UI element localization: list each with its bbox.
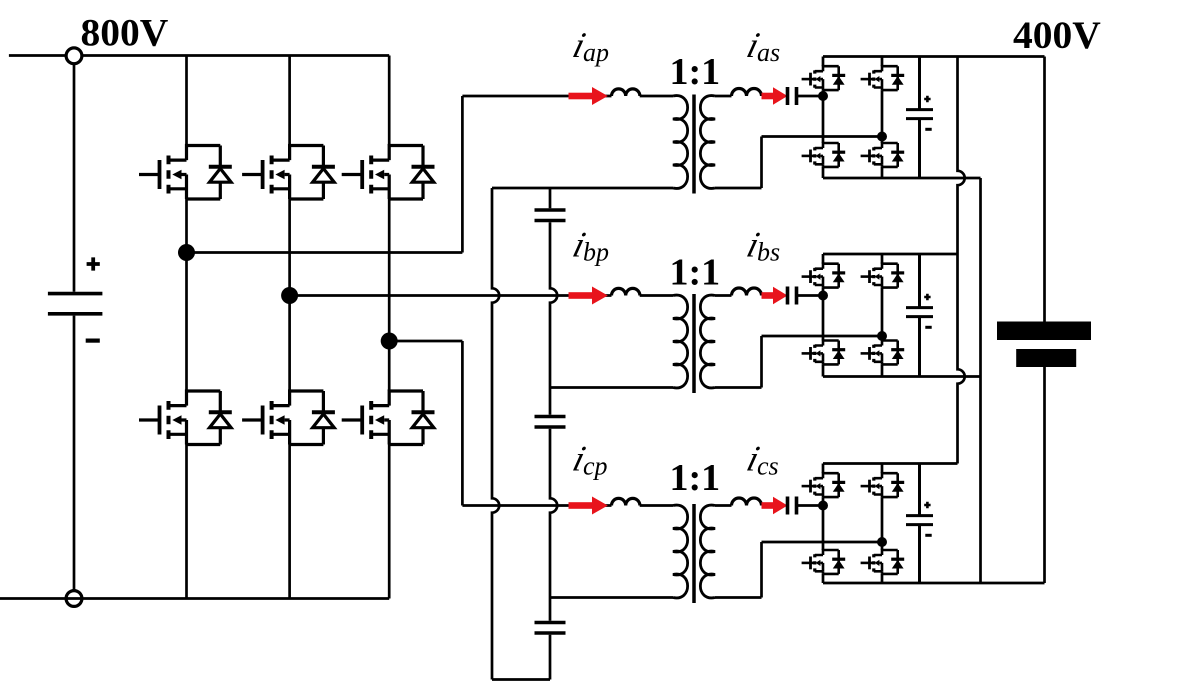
transistor Q2 xyxy=(242,146,335,200)
wire cap to module b xyxy=(797,294,824,297)
capacitor Cob output xyxy=(906,254,933,377)
wire chain bottom xyxy=(492,678,550,681)
wire module A leg2 xyxy=(881,57,884,179)
inductor Las xyxy=(732,89,762,97)
wire leg3 source lower xyxy=(388,445,391,599)
transistor S4c xyxy=(861,550,905,574)
capacitor C3 blocking xyxy=(535,623,566,634)
svg-text:cs: cs xyxy=(757,452,779,481)
wire cap to module c xyxy=(797,504,824,507)
current arrow i_ap xyxy=(569,87,608,105)
transistor Q5 xyxy=(242,391,335,445)
wire phase a top xyxy=(462,95,611,98)
transistor Q3 xyxy=(342,146,435,200)
svg-text:as: as xyxy=(757,38,780,67)
inductor Lcs xyxy=(732,498,762,506)
transistor S4b xyxy=(861,341,905,365)
wire T2 primary return xyxy=(550,386,673,389)
svg-text:400V: 400V xyxy=(1013,13,1101,57)
capacitor Cba series phase a xyxy=(788,87,797,105)
wire cap chain segment 3 with hop xyxy=(550,429,557,621)
transistor S1b xyxy=(802,264,846,288)
inductor Lbp xyxy=(612,288,640,295)
current arrow i_bp xyxy=(569,287,608,305)
wire phase c top xyxy=(462,504,611,507)
wire cap to module a xyxy=(797,95,824,98)
transistor S4a xyxy=(861,143,905,167)
wire cap chain segment 4 xyxy=(549,635,552,680)
wire Lbp to T2 xyxy=(640,294,673,297)
module B top rail xyxy=(823,253,958,256)
wire 400V positive bus xyxy=(1043,57,1046,322)
wire left dc link upper xyxy=(73,64,76,292)
transistor Q4 xyxy=(139,391,232,445)
label plus Coc xyxy=(924,502,930,508)
svg-text:bs: bs xyxy=(757,238,780,267)
module A top rail xyxy=(823,55,1045,58)
wire leg1 drain upper xyxy=(185,56,188,146)
transistor S1a xyxy=(802,66,846,90)
node phase b midpoint xyxy=(281,287,298,304)
wire T1 primary return xyxy=(492,187,673,190)
wire top dc bus xyxy=(9,54,389,57)
label plus Cdc xyxy=(87,257,100,270)
node phase c midpoint xyxy=(381,333,398,350)
wire leg2 source lower xyxy=(288,445,291,599)
node module A input+ xyxy=(818,91,828,101)
transistor S2b xyxy=(861,264,905,288)
wire T1 secondary return xyxy=(715,137,882,189)
wire module C leg2 xyxy=(881,464,884,584)
transistor S3c xyxy=(802,550,846,574)
wire cap chain segment 1 xyxy=(549,188,552,208)
label minus Cob xyxy=(925,326,931,329)
wire phase a out xyxy=(187,251,463,254)
svg-text:ap: ap xyxy=(583,38,609,67)
node module C input+ xyxy=(818,501,828,511)
wire phase a riser xyxy=(461,96,464,253)
capacitor Cbb series phase b xyxy=(788,287,797,305)
wire module B leg1 xyxy=(822,254,825,377)
transformer T1 xyxy=(673,95,715,194)
inductor Lcp xyxy=(612,498,640,505)
current arrow i_cs xyxy=(762,497,788,515)
transistor S3a xyxy=(802,143,846,167)
label minus Coc xyxy=(925,534,931,537)
transistor S1c xyxy=(802,473,846,497)
wire T3 primary return xyxy=(550,596,673,599)
current arrow i_cp xyxy=(569,497,608,515)
module B bottom rail xyxy=(823,375,981,378)
wire left dc link lower xyxy=(73,316,76,591)
current arrow i_as xyxy=(762,87,788,105)
node module C input- xyxy=(877,537,887,547)
svg-text:1:1: 1:1 xyxy=(670,252,721,294)
module C top rail xyxy=(823,462,958,465)
label plus Coa xyxy=(924,96,930,102)
terminal bottom-left xyxy=(66,591,82,607)
capacitor Coa output xyxy=(906,57,933,179)
wire leg2 middle xyxy=(288,199,291,391)
capacitor C2 blocking xyxy=(535,417,566,428)
wire phase c riser xyxy=(461,341,464,506)
wire T2 secondary return xyxy=(715,336,882,388)
wire leg1 source lower xyxy=(185,445,188,599)
transistor S2c xyxy=(861,473,905,497)
transistor S2a xyxy=(861,66,905,90)
wire T2 secondary top xyxy=(715,294,732,297)
label minus Coa xyxy=(925,128,931,131)
svg-text:bp: bp xyxy=(583,238,609,267)
wire star vertical with hops xyxy=(492,188,499,680)
capacitor C1 blocking xyxy=(535,210,566,221)
wire 400V negative bus xyxy=(1043,367,1046,583)
transformer T2 xyxy=(673,294,715,393)
wire negative link bus xyxy=(979,178,982,583)
wire leg2 drain upper xyxy=(288,56,291,146)
wire cap chain segment 2 with hop xyxy=(550,222,557,415)
wire Lcp to T3 xyxy=(640,504,673,507)
wire T1 secondary top xyxy=(715,95,732,98)
capacitor Cbc series phase c xyxy=(788,497,797,515)
module C bottom rail xyxy=(823,582,1045,585)
wire T3 secondary top xyxy=(715,504,732,507)
inductor Lbs xyxy=(732,288,762,296)
battery 400V plate- xyxy=(1016,349,1076,367)
capacitor Cdc 800V xyxy=(48,292,103,296)
node module B input- xyxy=(877,331,887,341)
wire bottom dc bus xyxy=(0,597,389,600)
wire module C leg1 xyxy=(822,464,825,584)
node module B input+ xyxy=(818,291,828,301)
svg-text:800V: 800V xyxy=(81,11,169,55)
wire leg1 middle xyxy=(185,199,188,391)
inductor Lap xyxy=(612,89,640,96)
wire Lap to T1 xyxy=(640,95,673,98)
transformer T3 xyxy=(673,504,715,603)
module A bottom rail xyxy=(823,177,981,180)
wire phase b out xyxy=(290,294,612,297)
capacitor Coc output xyxy=(906,464,933,584)
transistor Q1 xyxy=(139,146,232,200)
svg-text:1:1: 1:1 xyxy=(670,457,721,499)
label plus Cob xyxy=(924,294,930,300)
battery 400V plate+ xyxy=(997,322,1091,341)
wire T3 secondary return xyxy=(715,542,882,598)
svg-text:cp: cp xyxy=(583,452,608,481)
transistor Q6 xyxy=(342,391,435,445)
node phase a midpoint xyxy=(178,244,195,261)
terminal top-left xyxy=(66,48,82,64)
wire phase c out xyxy=(389,340,462,343)
node module A input- xyxy=(877,132,887,142)
wire module A leg1 xyxy=(822,57,825,179)
wire leg3 drain upper xyxy=(388,56,391,146)
current arrow i_bs xyxy=(762,287,788,305)
label minus Cdc xyxy=(86,339,100,343)
wire positive link bus with hops xyxy=(958,57,965,464)
wire module B leg2 xyxy=(881,254,884,377)
svg-text:1:1: 1:1 xyxy=(670,51,721,93)
transistor S3b xyxy=(802,341,846,365)
wire leg3 middle xyxy=(388,199,391,391)
